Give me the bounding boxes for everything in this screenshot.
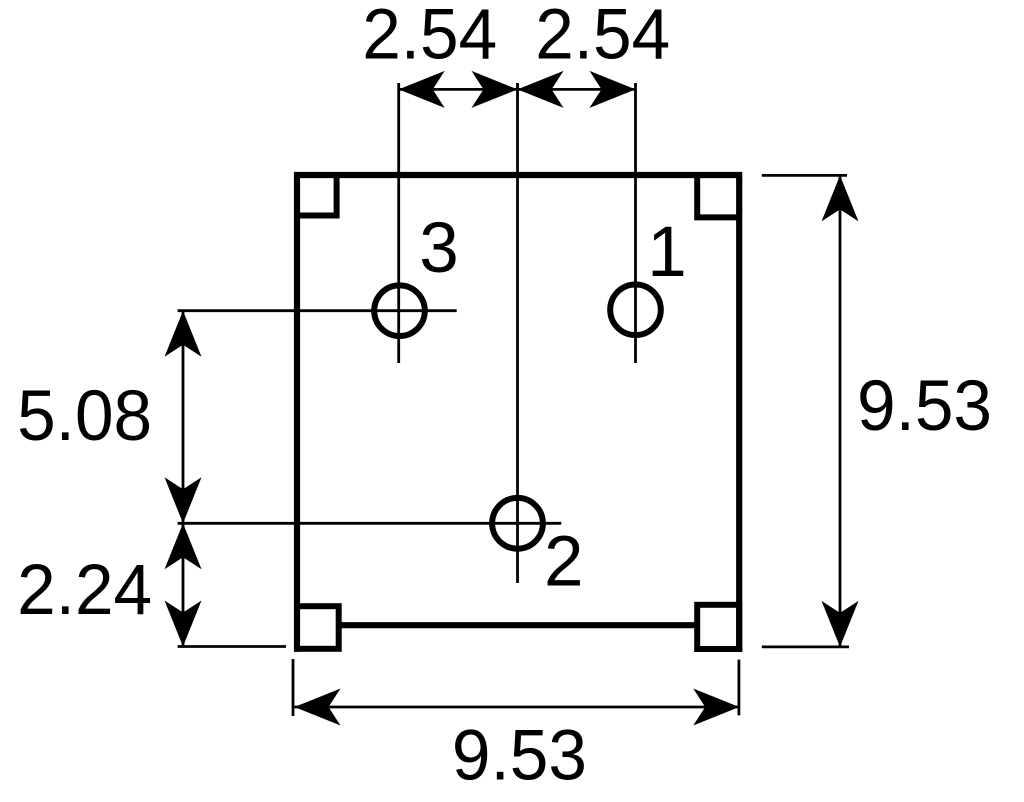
- pin 3 circle: [374, 285, 425, 336]
- arrow left dim 2.24 down: [165, 601, 202, 647]
- pin 3 center vertical line: [397, 83, 400, 363]
- right dimension line 9.53: [839, 175, 842, 647]
- pin 1 circle: [610, 285, 661, 336]
- pin 2 center horizontal line: [178, 522, 562, 525]
- corner pad top-right: [697, 175, 739, 217]
- thin construction / dimension lines: [178, 83, 849, 716]
- arrow left dim 5.08 up: [165, 311, 202, 357]
- svg-text:3: 3: [419, 209, 459, 288]
- arrow top dim left-span right: [472, 71, 518, 108]
- pin 2 center vertical line: [516, 83, 519, 583]
- pin 3 center horizontal line: [178, 309, 457, 312]
- svg-text:2.54: 2.54: [535, 0, 670, 75]
- corner pad bottom-left: [297, 606, 339, 649]
- svg-text:5.08: 5.08: [17, 377, 152, 456]
- arrow top dim left-span left: [399, 71, 445, 108]
- body top edge: [294, 172, 742, 178]
- arrow left dim 5.08 down: [165, 477, 202, 523]
- bottom left extension line: [292, 659, 295, 716]
- left bottom extension line: [178, 645, 286, 648]
- arrow right dim up: [822, 175, 859, 221]
- component body outline: [294, 172, 742, 652]
- bottom right extension line: [738, 660, 741, 716]
- arrow bottom dim right: [693, 689, 739, 726]
- bottom dimension line 9.53: [295, 706, 740, 709]
- pin 1 center vertical line: [634, 83, 637, 363]
- svg-text:1: 1: [647, 213, 687, 292]
- left dimension line 5.08/2.24: [182, 311, 185, 647]
- arrowheads: [165, 71, 859, 726]
- right bottom extension line: [762, 646, 849, 649]
- body right edge: [736, 172, 742, 652]
- svg-text:9.53: 9.53: [452, 717, 587, 796]
- bottom connecting line: [339, 622, 698, 628]
- arrow left dim 2.24 up: [165, 523, 202, 569]
- right top extension line: [762, 174, 847, 177]
- pin 2 circle: [492, 498, 543, 549]
- corner pad bottom-right: [697, 605, 739, 649]
- arrow bottom dim left: [295, 689, 341, 726]
- svg-text:2: 2: [544, 522, 584, 601]
- top dimension line 2.54+2.54: [399, 88, 636, 91]
- body left edge: [294, 172, 300, 652]
- arrow top dim right-span right: [590, 71, 636, 108]
- arrow right dim down: [822, 601, 859, 647]
- svg-text:2.54: 2.54: [362, 0, 497, 75]
- arrow top dim right-span left: [518, 71, 564, 108]
- svg-text:2.24: 2.24: [17, 551, 152, 630]
- corner pad top-left: [297, 175, 337, 216]
- corner pads: [297, 175, 739, 649]
- svg-text:9.53: 9.53: [857, 367, 992, 446]
